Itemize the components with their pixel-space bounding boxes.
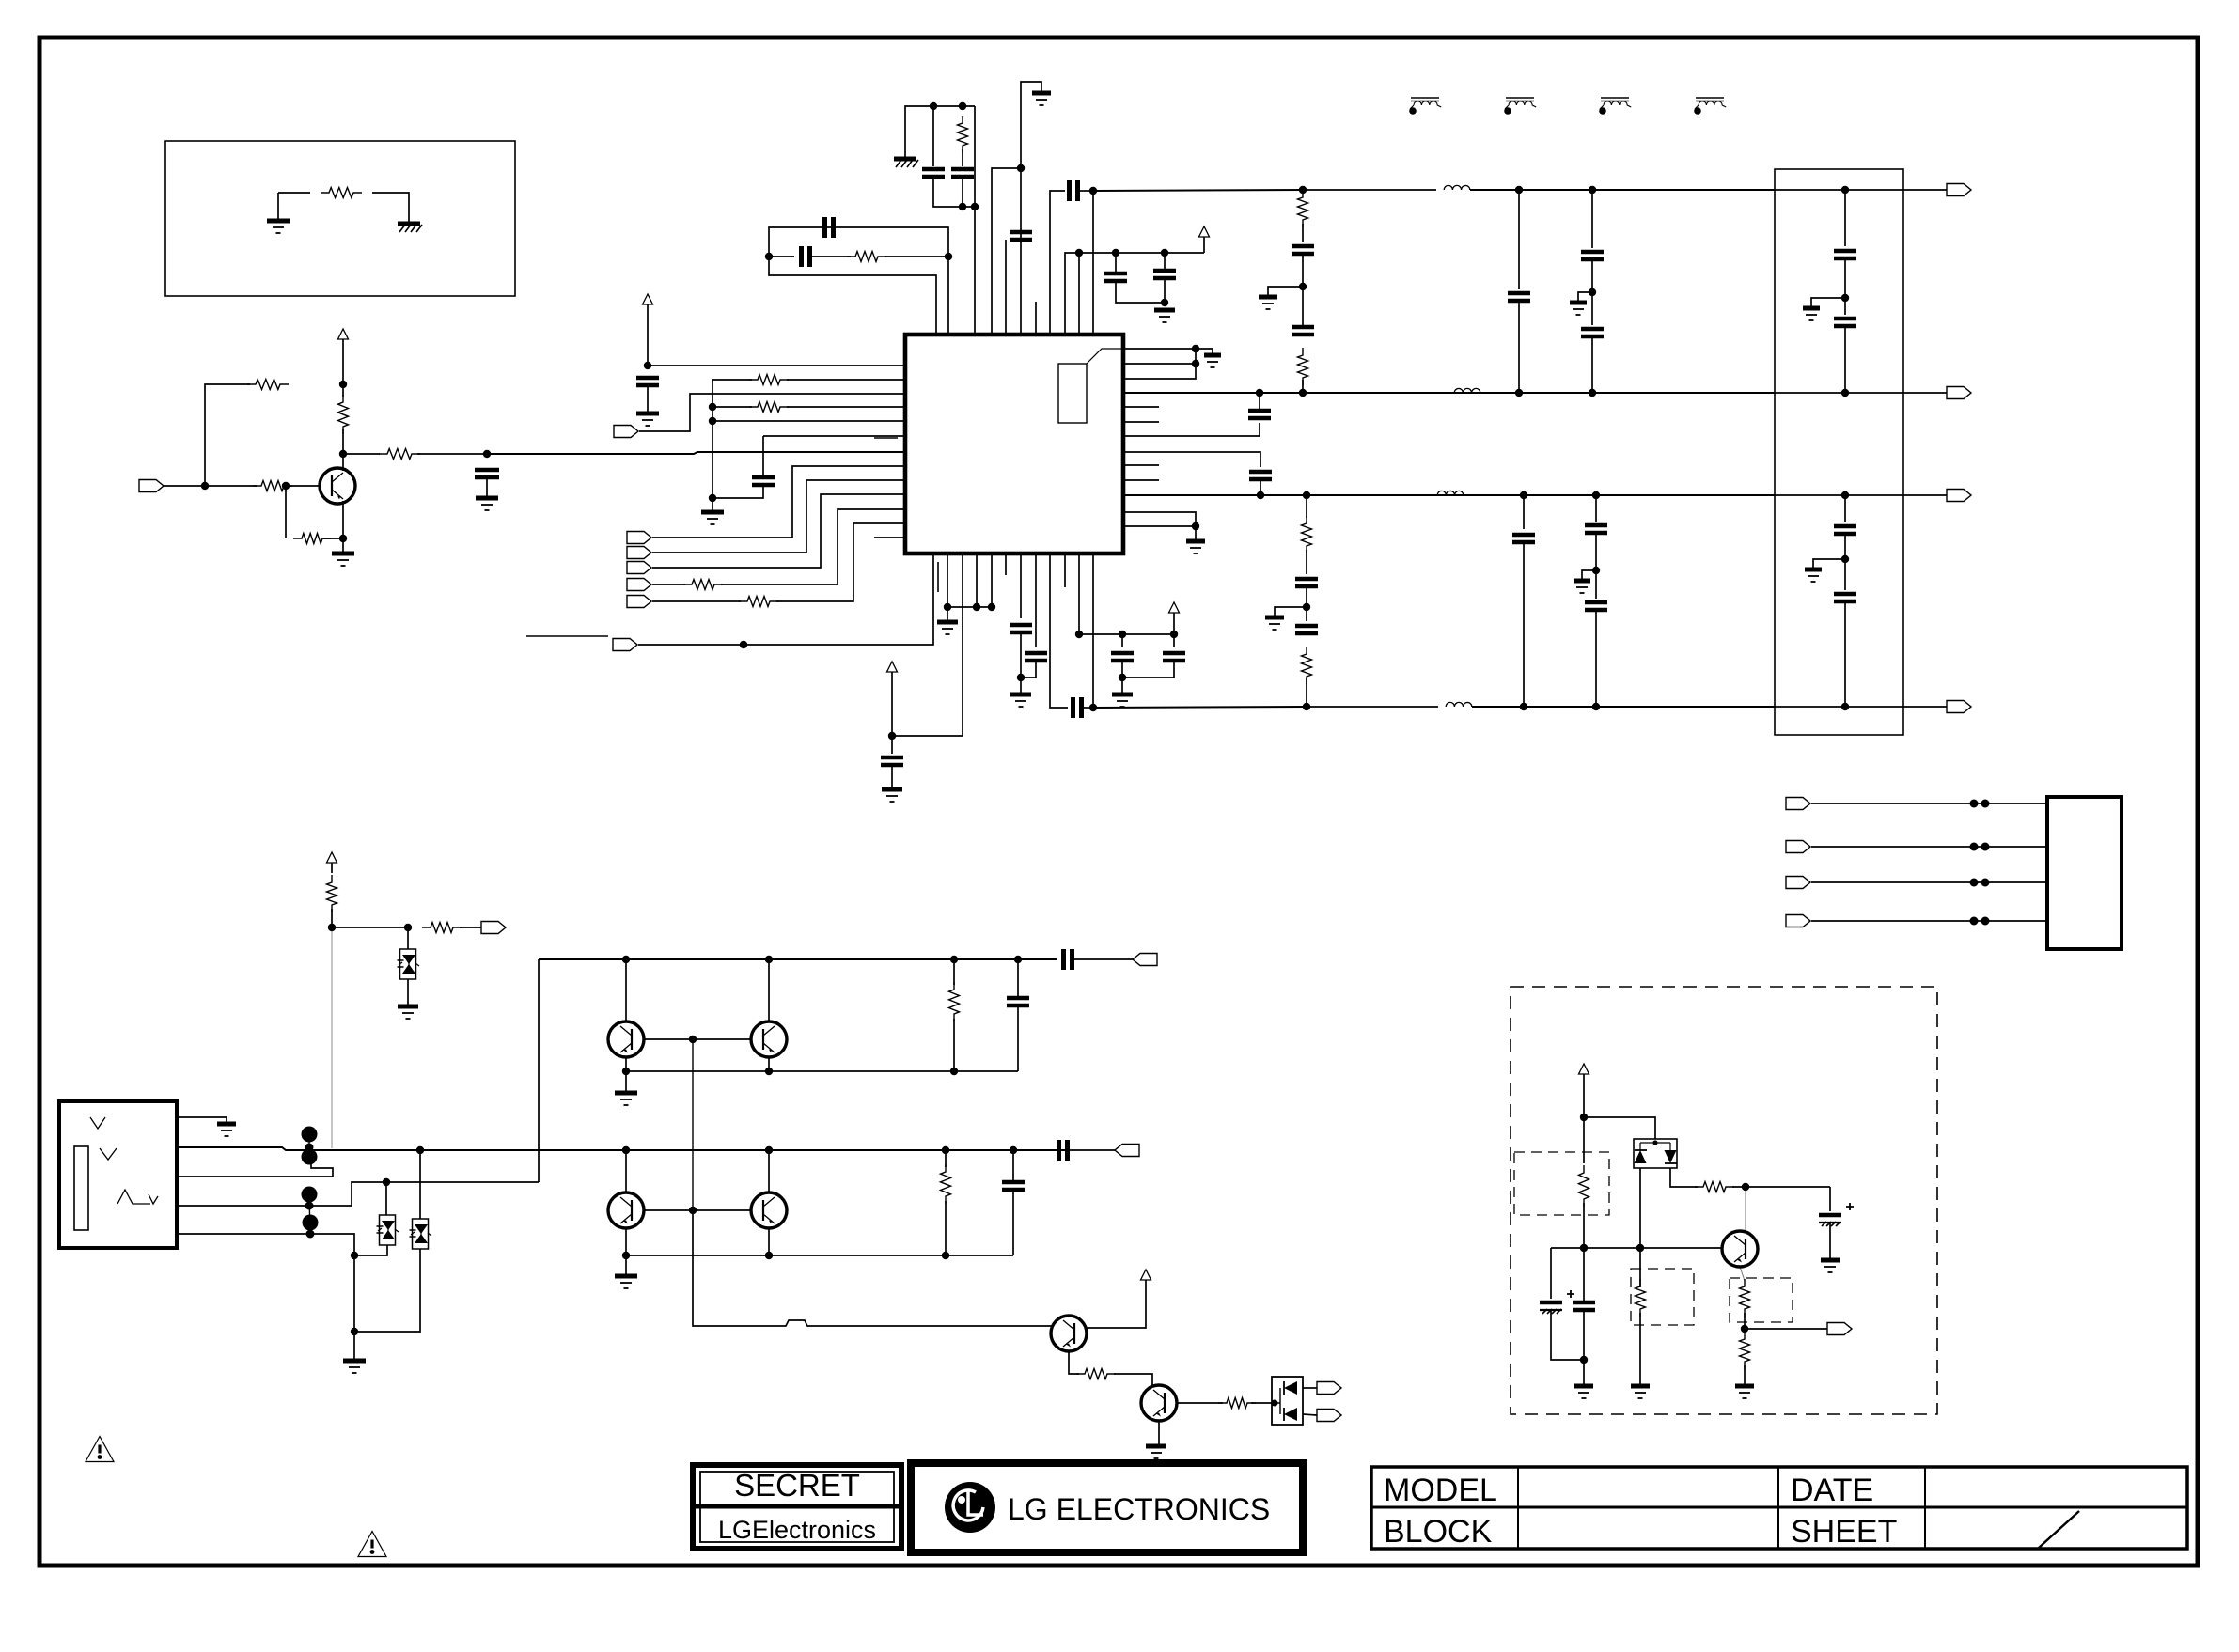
wire M1 to diodes — [1584, 1117, 1655, 1139]
wire ref left — [278, 192, 310, 194]
shunt cap leg1 — [1518, 190, 1520, 289]
wire VCC to node — [342, 339, 344, 384]
chassis ground ref right — [398, 222, 420, 226]
wire R7 to C3 — [962, 149, 963, 166]
wire jack pin3 — [177, 1162, 333, 1177]
node B2 — [945, 253, 952, 260]
svg-text:DATE: DATE — [1791, 1473, 1873, 1508]
wire C40 legs — [1583, 1299, 1585, 1302]
ferrite bead FB2 — [1506, 98, 1534, 101]
power arrow module — [1579, 1064, 1589, 1074]
node J2 bead4a — [1970, 917, 1979, 926]
shunt cap leg2 — [1523, 495, 1525, 529]
wire ZD join drop — [353, 1255, 355, 1332]
node G1 — [1841, 491, 1849, 499]
wire Q6 emitter — [1069, 1351, 1079, 1374]
resistor R7 — [958, 116, 968, 153]
node bus2 c — [1515, 389, 1523, 397]
capacitor C35 coupling — [1064, 949, 1073, 970]
resistor R6 emitter — [293, 534, 331, 544]
wire Q2 emitter — [625, 1057, 627, 1071]
node row1 cap — [1014, 956, 1022, 963]
ground ref left — [267, 219, 290, 224]
wire tag D4 — [652, 600, 741, 602]
IC pin t8 stub — [1035, 302, 1037, 335]
wire Q2 collector — [625, 959, 627, 1021]
divider leg2 bot — [1595, 610, 1597, 707]
wire module vdd — [1583, 1074, 1585, 1163]
node TVSB top — [383, 1178, 390, 1186]
IC pin L6 corner — [763, 435, 905, 437]
wire Q7 base out — [1177, 1402, 1223, 1404]
node TVS1 top — [328, 924, 336, 931]
transistor Q2 — [608, 1021, 644, 1057]
tag J2 line3 — [1786, 877, 1810, 889]
node R13 — [1192, 522, 1199, 530]
node D4 — [1161, 299, 1168, 306]
IC pin B11 route — [1078, 553, 1080, 634]
node J2 bead2b — [1981, 843, 1990, 851]
power arrow Q6 — [1141, 1270, 1151, 1280]
resistor R15v — [1302, 516, 1312, 553]
resistor R24 — [1695, 1182, 1734, 1192]
node bus2 b — [1299, 389, 1307, 397]
IC pin R6 stub — [1123, 421, 1159, 423]
wire R22 to diode box — [1251, 1402, 1275, 1404]
tag OUT3 — [1947, 490, 1971, 502]
node Q1 collector — [339, 450, 347, 458]
wire bus4 seg3 — [1472, 706, 1775, 708]
resistor R12 — [739, 597, 778, 607]
wire TVS-A stem — [407, 927, 409, 949]
ground R26 — [1735, 1384, 1754, 1389]
capacitor C9 — [1153, 271, 1176, 278]
wire D2 right leg — [1670, 1168, 1698, 1187]
wire div2 gnd arm — [1582, 570, 1596, 579]
node M2 — [1742, 1183, 1749, 1191]
wire Q5 emitter — [768, 1228, 770, 1255]
node M3 — [1741, 1325, 1748, 1333]
node bus4 b — [1303, 703, 1310, 710]
transistor Q1 — [320, 468, 355, 504]
node F3 — [1841, 389, 1849, 397]
resistor R22 — [1218, 1398, 1256, 1409]
IC pin L13 stub — [874, 537, 905, 538]
wire chain1 gnd arm — [1268, 287, 1303, 295]
wire Q2 em gnd — [625, 1071, 627, 1091]
node F2 — [1841, 294, 1849, 302]
IC pin R10 stub — [1123, 479, 1159, 481]
tag OUT1 — [1947, 184, 1971, 196]
IC pin B5 — [991, 553, 993, 607]
IC pin L12 route — [776, 523, 905, 601]
IC pin R5 stub — [1123, 406, 1159, 408]
node P3 — [305, 1202, 314, 1210]
wire arrow stem B — [891, 672, 893, 736]
wire Q7 emitter — [1158, 1421, 1160, 1444]
inductor L3 — [1437, 491, 1464, 495]
bead blob P3 — [302, 1187, 318, 1203]
IC pin R9 stub — [1123, 464, 1159, 466]
gray net line — [331, 930, 333, 1148]
wire C8C9 join — [1116, 281, 1165, 303]
sheet slash — [2039, 1511, 2079, 1548]
wire Q6 collector — [1086, 1280, 1146, 1328]
wire R18 tag — [460, 927, 481, 928]
wire left cap branch — [1550, 1248, 1552, 1299]
wire J2 line1 — [1811, 803, 2047, 804]
tag KEY — [481, 922, 506, 934]
transistor Q8 — [1722, 1231, 1758, 1267]
node J2 bead2a — [1970, 843, 1979, 851]
ground R small — [1204, 353, 1221, 358]
IC pin R12 route — [1123, 512, 1196, 526]
chassis ground top — [894, 157, 916, 162]
ground chain1 — [1259, 295, 1277, 300]
wire D1 out2 — [1303, 1414, 1317, 1415]
wire jack pin4 — [177, 1182, 539, 1206]
ground C38 — [1821, 1258, 1840, 1263]
tag D2 — [627, 562, 651, 574]
capacitor C6 — [1010, 232, 1032, 240]
node R20 bot — [942, 1252, 949, 1259]
node bus4 c — [1520, 703, 1527, 710]
node L4 — [709, 403, 716, 411]
ground L — [701, 510, 724, 515]
node M base b — [1636, 1244, 1644, 1252]
capacitor C24 — [1508, 293, 1530, 301]
capacitor C7 coupling — [1070, 180, 1078, 201]
capacitor C33 — [1834, 594, 1856, 601]
node A1 — [930, 102, 937, 110]
resistor R1 — [321, 188, 362, 198]
jack contact V1 — [90, 1117, 105, 1129]
IC pin B6 stub — [1005, 553, 1007, 575]
resistor R18 — [422, 923, 462, 933]
wire C23 join — [1122, 661, 1174, 678]
node bus4 d — [1592, 703, 1600, 710]
wire R26 gnd — [1744, 1365, 1746, 1384]
wire G1 drop — [1844, 495, 1846, 522]
ground jack — [217, 1122, 236, 1127]
LG logo box — [911, 1463, 1303, 1552]
IC pin L5 — [712, 420, 905, 422]
wire mid RC — [769, 256, 794, 257]
capacitor C30 — [1834, 251, 1856, 258]
node B1 — [765, 253, 773, 260]
wire C9 join — [1164, 278, 1166, 303]
ground R13 — [1186, 539, 1205, 544]
wire blob link1 — [308, 1134, 310, 1157]
wire R17 to node — [331, 909, 333, 927]
wire J2 line2 — [1811, 846, 2047, 848]
wire VDD stem — [647, 304, 649, 366]
connector jack J1 — [59, 1101, 177, 1248]
capacitor C40 — [1573, 1302, 1595, 1310]
capacitor C2 — [922, 169, 945, 177]
wire C5 to R8 — [809, 256, 851, 257]
tag DOUT1 — [1317, 1382, 1341, 1395]
tag OUTB — [1115, 1145, 1139, 1157]
node bus1 start — [1089, 187, 1097, 195]
node L5 — [709, 417, 716, 425]
wire node to R4 — [343, 453, 380, 455]
wire C22 bot — [1121, 661, 1123, 693]
node bus1 c — [1515, 186, 1523, 194]
wire G2 gnd arm — [1813, 559, 1845, 568]
IC pin R13 — [1123, 525, 1196, 527]
node P4 — [306, 1230, 315, 1239]
IC U1 notch diagonal — [1087, 349, 1123, 364]
SECRET box divider — [693, 1504, 901, 1509]
wire E3 cap — [1173, 634, 1175, 647]
power arrow bottom left — [887, 662, 898, 672]
shunt cap leg2b — [1523, 542, 1525, 707]
wire base tie row1 — [644, 1038, 751, 1040]
node TVS tag — [404, 924, 412, 931]
wire ref left drop — [277, 193, 279, 219]
wire base tie to Q6 — [693, 1210, 1052, 1326]
node R1 — [1192, 345, 1199, 352]
ground E — [1112, 693, 1133, 697]
capacitor C16 — [1295, 579, 1318, 586]
ground B2 — [937, 620, 958, 625]
wire TVS arrow stem — [331, 863, 333, 873]
IC pin B2 gnd — [947, 553, 948, 607]
tag J2 line1 — [1786, 798, 1810, 810]
node F1 — [1841, 186, 1849, 194]
ground C1 — [476, 496, 498, 501]
title table col1 — [1517, 1467, 1519, 1549]
IC pin R7 route — [1123, 423, 1260, 436]
wire Q1 collector — [342, 454, 344, 471]
wire R1 gnd stub — [1196, 349, 1213, 353]
wire F2 gnd arm — [1811, 298, 1845, 306]
IC pin B9 route — [1050, 553, 1068, 708]
ferrite bead FB1 — [1411, 98, 1439, 101]
dashed box R25 — [1730, 1278, 1793, 1322]
dashed module box — [1511, 987, 1937, 1414]
ground F — [1803, 306, 1820, 311]
SECRET box outer — [693, 1465, 901, 1549]
ground top small — [1032, 91, 1051, 96]
svg-text:LGElectronics: LGElectronics — [718, 1516, 876, 1544]
wire arrow stem — [1203, 237, 1205, 253]
IC pin t12 riser — [974, 106, 976, 335]
node D3 — [1161, 249, 1168, 257]
capacitor C20 — [1025, 653, 1047, 661]
wire G mid — [1844, 534, 1846, 590]
resistor R20 — [941, 1164, 951, 1204]
SECRET box inner frame — [700, 1472, 894, 1542]
node bus2 d — [1589, 389, 1596, 397]
svg-text:SHEET: SHEET — [1791, 1514, 1897, 1550]
wire TVS row — [332, 927, 408, 928]
wire L6 drop — [762, 436, 764, 477]
wire bus4 inside — [1775, 706, 1947, 708]
node Q4 col — [622, 1146, 630, 1154]
node M base a — [1580, 1244, 1588, 1252]
node bus4 start — [1089, 704, 1097, 711]
wire cap E leg — [1829, 1187, 1831, 1211]
IC pin B12 riser — [1092, 553, 1094, 708]
capacitor C12 — [1248, 411, 1271, 418]
capacitor C21 coupling — [1073, 697, 1082, 718]
node G2 — [1841, 555, 1849, 563]
resistor R13v — [1298, 190, 1308, 227]
IC pin R2 — [1123, 363, 1196, 365]
node C1 — [1017, 164, 1025, 172]
jack inner contact strip — [74, 1146, 88, 1230]
capacitor C27 — [1512, 535, 1535, 542]
wire TVSC bot — [354, 1249, 420, 1332]
IC pin t7 route — [1021, 82, 1041, 335]
wire R23 to base — [1583, 1203, 1585, 1299]
title table col3 — [1924, 1467, 1926, 1549]
node J2 bead3b — [1981, 879, 1990, 887]
wire tag bottom — [638, 644, 666, 646]
warning triangle 2 — [358, 1532, 386, 1557]
bead blob P4 — [303, 1215, 319, 1231]
node input join — [201, 482, 209, 490]
ground M main — [1574, 1384, 1593, 1389]
wire base tie vert — [692, 1039, 694, 1210]
wire bus1 seg3 — [1470, 189, 1775, 191]
warning triangle 1 — [86, 1437, 114, 1462]
wire bus4 seg1 — [1093, 707, 1307, 708]
node bus1 b — [1299, 186, 1307, 194]
wire L45 drop — [712, 407, 713, 498]
tag D0 — [627, 532, 651, 544]
wire R15 C16 — [1306, 550, 1307, 574]
node A3 — [971, 203, 979, 210]
node Q3 em — [765, 1068, 773, 1075]
node Q3 col — [765, 956, 773, 963]
ground ZD1 — [398, 1005, 418, 1009]
ground C18 — [882, 787, 902, 792]
IC pin L3 route — [639, 394, 905, 431]
wire TVSB bot — [354, 1245, 387, 1255]
power arrow TVS area — [327, 852, 337, 863]
node E3 — [1170, 631, 1178, 638]
wire R2 left corner — [205, 384, 250, 486]
wire row1 rise — [538, 959, 540, 1182]
wire Q3 collector — [768, 959, 770, 1021]
capacitor C3 — [951, 169, 974, 177]
resistor R23 — [1579, 1165, 1589, 1207]
node row2 res — [942, 1146, 949, 1154]
power arrow VCC Q1 — [338, 329, 349, 339]
node bus3 c — [1520, 491, 1527, 499]
wire C3 bottom — [962, 179, 963, 207]
wire Q4 em gnd — [625, 1255, 627, 1274]
IC pin t1 route — [769, 227, 948, 335]
node row2 cap — [1010, 1146, 1017, 1154]
jack contact arrow — [149, 1194, 158, 1204]
capacitor C14 — [1292, 246, 1314, 254]
ground Q4 — [615, 1274, 637, 1279]
dashed box R23 — [1514, 1152, 1609, 1215]
wire R20 legs — [945, 1150, 947, 1167]
wire TVSB stem — [385, 1182, 387, 1215]
wire bus3 seg3 — [1464, 494, 1775, 496]
tag J2 line2 — [1786, 841, 1810, 853]
wire Q1 emitter — [342, 501, 344, 537]
transistor Q7 — [1141, 1385, 1177, 1421]
tag DOUT2 — [1317, 1410, 1341, 1422]
wire C36 legb — [1012, 1190, 1014, 1255]
wire R8 to pin — [885, 256, 948, 257]
node base row1 — [689, 1036, 697, 1043]
wire TVS-A gnd — [407, 979, 409, 1005]
svg-text:SECRET: SECRET — [734, 1468, 860, 1503]
output filter box — [1775, 169, 1903, 735]
gray emitter line — [1740, 1267, 1745, 1281]
capacitor C29 — [1585, 602, 1607, 610]
capacitor C10 — [636, 378, 659, 385]
wire bus2 seg2 — [1303, 392, 1448, 394]
bead blob P1 — [302, 1127, 318, 1143]
wire bus4 seg2 — [1307, 706, 1438, 708]
capacitor C32 — [1834, 526, 1856, 534]
node J2 bead1a — [1970, 800, 1979, 808]
transistor Q5 — [751, 1192, 787, 1228]
wire C10 gnd — [647, 385, 649, 412]
node bus3 d — [1592, 491, 1600, 499]
tag OUT4 — [1947, 701, 1971, 713]
capacitor C13 — [1249, 472, 1272, 479]
capacitor C15 — [1292, 327, 1314, 335]
wire long to IC pin481 — [487, 452, 905, 454]
LG logo emblem — [945, 1482, 995, 1533]
wire C16 node — [1306, 586, 1307, 621]
node emitter — [339, 535, 347, 542]
wire R19 legs — [953, 959, 955, 985]
capacitor C36 — [1002, 1182, 1025, 1190]
IC pin B8 route — [1035, 553, 1037, 647]
title table row line — [1371, 1506, 2187, 1509]
wire ref right — [372, 193, 409, 222]
ground Q7 — [1146, 1444, 1166, 1449]
node Q4 em — [622, 1252, 630, 1259]
resistor R19 — [949, 982, 960, 1021]
capacitor C17 — [1295, 626, 1318, 633]
wire C1 to gnd — [486, 477, 488, 496]
divider leg2 — [1595, 495, 1597, 522]
node R19 bot — [950, 1068, 958, 1075]
divider leg1 mid — [1591, 259, 1593, 325]
power arrow top right — [1199, 226, 1210, 237]
wire emitter res — [323, 538, 343, 539]
wire row2 out — [1068, 1149, 1115, 1151]
jack contact V2 — [100, 1148, 117, 1160]
tag D3 — [627, 579, 651, 591]
diode pair D2 — [1634, 1139, 1677, 1168]
node Q2 col — [622, 956, 630, 963]
wire base — [286, 485, 320, 487]
wire tag D3 — [652, 584, 685, 585]
IC pin L11 route — [721, 509, 905, 584]
wire chain1 to bus2 — [1302, 380, 1304, 393]
IC pin L10 route — [652, 494, 905, 568]
title table col2 — [1777, 1467, 1779, 1549]
node div2 — [1592, 567, 1600, 574]
node B7 — [1017, 674, 1025, 681]
wire row1 emitter — [626, 1070, 1018, 1072]
node Q2 em — [622, 1068, 630, 1075]
tag OUT2 — [1947, 387, 1971, 399]
node diode tap — [1272, 1400, 1278, 1407]
